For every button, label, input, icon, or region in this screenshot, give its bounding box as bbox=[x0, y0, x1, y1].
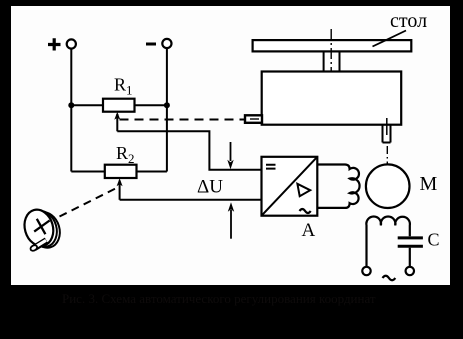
leader line to стол bbox=[373, 31, 407, 47]
R2 wiper arrow bbox=[119, 181, 121, 200]
shaft axis dash-dot bbox=[386, 146, 388, 186]
AC source symbol ~ bbox=[383, 276, 396, 281]
dashed link handwheel to R2 wiper bbox=[60, 188, 118, 217]
node junction right bbox=[164, 102, 170, 108]
setpoint handwheel bbox=[20, 206, 64, 252]
machine table (стол) bbox=[253, 40, 412, 51]
dimension arrow upper ΔU bbox=[230, 142, 232, 161]
scan border top bbox=[0, 0, 463, 6]
scan border left bbox=[0, 0, 11, 339]
machine body box bbox=[262, 72, 402, 125]
dimension arrow lower ΔU bbox=[230, 210, 232, 239]
wire R1 right bbox=[135, 104, 167, 106]
dashed mechanical link R1 wiper to machine bbox=[120, 119, 246, 121]
scan border right bbox=[450, 0, 463, 339]
wire right vertical from - bbox=[166, 48, 168, 171]
motor shaft stub bbox=[383, 125, 391, 143]
terminal + bbox=[48, 38, 76, 50]
wire left vertical from + bbox=[70, 49, 72, 172]
svg-text:М: М bbox=[420, 173, 438, 195]
resistor R2 bbox=[105, 165, 137, 178]
amplifier U1 box bbox=[262, 157, 318, 216]
capacitor C bbox=[398, 238, 423, 246]
machine left screw protrusion bbox=[245, 115, 262, 123]
R1 wiper arrow bbox=[116, 114, 118, 131]
terminal circle right bbox=[406, 267, 414, 275]
wire R2 right bbox=[137, 171, 167, 173]
scan border bottom bbox=[0, 285, 463, 339]
resistor R1 bbox=[103, 99, 135, 112]
svg-text:С: С bbox=[428, 230, 440, 250]
svg-text:Рис. 3. Схема автоматического: Рис. 3. Схема автоматического регулирова… bbox=[62, 291, 376, 306]
node junction left bbox=[68, 102, 74, 108]
centerline axis bbox=[330, 29, 332, 83]
terminal - bbox=[146, 39, 171, 48]
motor control winding (amp to motor coil) bbox=[317, 165, 359, 208]
svg-text:ΔU: ΔU bbox=[197, 177, 223, 198]
wire R2 wiper to amplifier lower input bbox=[120, 199, 262, 201]
wire R2 left bbox=[71, 171, 105, 173]
motor excitation winding (lower coil) bbox=[366, 216, 410, 267]
terminal circle left bbox=[362, 267, 370, 275]
amplifier triangle symbol bbox=[297, 184, 310, 196]
svg-text:А: А bbox=[302, 220, 316, 241]
wire R1 wiper to amplifier upper input bbox=[117, 131, 261, 170]
svg-text:стол: стол bbox=[390, 10, 427, 32]
amplifier DC symbol = bbox=[266, 165, 276, 169]
motor M circle bbox=[366, 164, 410, 208]
amplifier AC symbol ~ bbox=[300, 209, 311, 213]
wire R1 left bbox=[71, 104, 103, 106]
pedestal under table bbox=[324, 51, 340, 71]
